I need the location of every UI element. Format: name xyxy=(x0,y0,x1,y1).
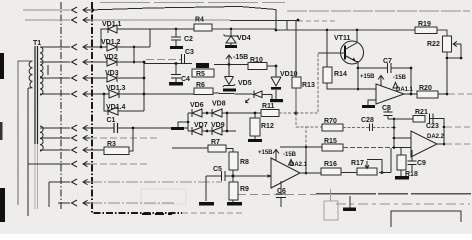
wire row y=164 gray continuation xyxy=(90,163,150,165)
svg-text:DA2.2: DA2.2 xyxy=(427,134,445,140)
transformer T1 core xyxy=(35,46,38,144)
svg-text:T1: T1 xyxy=(33,40,41,47)
node C7 right xyxy=(410,67,413,70)
wire DA1.1 inverting input xyxy=(358,88,376,90)
transformer T1 primary winding xyxy=(29,61,32,88)
ground bar under R9 xyxy=(227,202,242,206)
wire DA1.1 output row xyxy=(404,93,447,95)
scan streak top xyxy=(100,2,285,4)
connector contact pair row y=128 xyxy=(72,125,78,131)
bottom partial component box xyxy=(330,189,332,201)
node VD7 anode xyxy=(206,130,209,133)
transformer T1 polarity tick xyxy=(47,65,49,75)
left edge black bar 1 xyxy=(0,53,4,79)
wire R20 to edge xyxy=(449,93,472,95)
ground bar under C4 xyxy=(169,82,183,86)
wire R14 bottom to DA1.1 input xyxy=(327,83,358,89)
ground bar under VD10 xyxy=(270,99,283,102)
node row-y10 junction xyxy=(92,9,95,12)
op-amp DA2.2 xyxy=(411,131,437,157)
wire rectifier loop1 frame xyxy=(90,29,150,47)
wiper R17 xyxy=(367,160,382,173)
wire DA2.1 inverting input xyxy=(233,175,271,177)
connector contact pair row y=62 xyxy=(72,59,78,65)
node VD10 top xyxy=(275,65,278,68)
connector contact pair row y=47 xyxy=(72,44,78,50)
svg-text:C5: C5 xyxy=(213,166,222,173)
wire R17 row to riser xyxy=(379,148,391,173)
connector contact pair row y=164 xyxy=(72,161,78,167)
ground bar under R18 xyxy=(395,176,409,180)
svg-text:R13: R13 xyxy=(302,82,315,89)
wire secondary tap y=94 xyxy=(40,93,70,95)
wire C28 to DA2.2 column xyxy=(373,127,395,129)
op-amp DA1.1 xyxy=(376,84,404,104)
svg-text:C23: C23 xyxy=(426,123,439,130)
wire R15 row to DA2.2 column xyxy=(343,147,394,149)
wire row y=10 right of connector to corner x=276 xyxy=(90,7,276,11)
ground bar under C2 xyxy=(170,46,183,49)
wire primary row y=10 xyxy=(23,9,70,11)
diode (series with R6) xyxy=(254,91,262,99)
svg-text:+15B: +15B xyxy=(258,150,273,156)
wire DA2.2 upper input xyxy=(394,137,411,139)
wire row y=138 gray continuation xyxy=(90,137,158,139)
wire secondary tap y=78 xyxy=(40,77,70,79)
wire C1 row xyxy=(90,127,188,129)
node R21 row xyxy=(393,118,396,121)
wire bottom row y=182 stub xyxy=(49,182,70,207)
svg-text:+15B: +15B xyxy=(360,74,375,80)
wire row y=203 gray continuation xyxy=(90,202,176,204)
faint ghost box bottom left xyxy=(141,189,186,204)
boundary bottom gray continuation xyxy=(182,212,242,214)
connector contact pair row y=94 xyxy=(72,91,78,97)
node x=144 y=78 xyxy=(143,77,146,80)
svg-text:C4: C4 xyxy=(181,76,190,83)
wire secondary tap y=138 xyxy=(40,137,70,139)
svg-text:R22: R22 xyxy=(427,41,440,48)
ground bar DA1.1 xyxy=(362,105,375,108)
wire output row to R16 xyxy=(306,172,358,175)
node VD1.3 left xyxy=(103,93,106,96)
node C2 tap xyxy=(175,28,178,31)
transformer T1 secondary winding lower xyxy=(40,126,43,151)
scan line bottom faint left part xyxy=(238,194,316,196)
ground bar under VD5 xyxy=(223,89,236,92)
wire R22 bottom xyxy=(447,52,461,94)
enclosure boundary dash-dot vertical B with bottom corner xyxy=(92,2,182,213)
wire row y=182 gray continuation xyxy=(90,181,222,183)
ground bar under R12 xyxy=(248,139,262,142)
svg-text:C9: C9 xyxy=(417,160,426,167)
wire DA1.1 noninverting input to ground xyxy=(368,100,376,105)
wire VD7/VD9 row y=131 xyxy=(188,130,236,132)
connector contact pair row y=150 xyxy=(72,147,78,153)
wire main top row y=29/30 xyxy=(212,29,447,36)
svg-text:R4: R4 xyxy=(195,17,204,24)
bottom partial frame xyxy=(391,211,461,227)
wire top-left rail corner down xyxy=(275,10,277,31)
svg-text:VT11: VT11 xyxy=(334,35,350,42)
svg-text:VD5: VD5 xyxy=(238,80,252,87)
node emitter C7 tap xyxy=(357,67,360,70)
svg-text:R16: R16 xyxy=(324,161,337,168)
node R17 output xyxy=(381,171,384,174)
connector contact pair row y=78 xyxy=(72,75,78,81)
wire R21 row xyxy=(388,119,444,145)
node ladder ground tap xyxy=(187,121,190,124)
svg-text:C3: C3 xyxy=(185,49,194,56)
wire VT11 collector xyxy=(356,30,359,43)
wire DA2.2 output xyxy=(437,143,444,145)
scan line bottom middle xyxy=(316,193,472,195)
wire VD6/VD8 row y=113 xyxy=(188,112,261,114)
node VD2 row x=134 xyxy=(133,61,136,64)
wire secondary tap y=150 xyxy=(40,149,70,151)
svg-text:VD6: VD6 xyxy=(190,102,204,109)
wire DA2.1 output row xyxy=(300,172,321,174)
node R11/R13 junction xyxy=(295,112,298,115)
node C1 row R3 riser xyxy=(132,127,135,130)
wire output to edge xyxy=(446,143,472,145)
node -15V tap xyxy=(228,63,231,66)
svg-text:R9: R9 xyxy=(240,186,249,193)
wire secondary tap y=47 xyxy=(40,46,70,48)
node top corner x=276 xyxy=(275,29,278,32)
wire row y=20 to x=298 xyxy=(90,19,230,21)
wire R7 leads xyxy=(172,148,233,152)
wire row y=66 (VD2 rail) xyxy=(144,64,276,67)
svg-text:-15B: -15B xyxy=(283,152,297,158)
wire loop2 right leg x=144 xyxy=(118,62,144,111)
enclosure boundary dash-dot vertical A xyxy=(60,2,62,210)
ground bar C5 xyxy=(199,202,214,206)
svg-text:VD8: VD8 xyxy=(212,101,226,108)
wire base feedback x=318 xyxy=(296,53,318,113)
svg-text:C1: C1 xyxy=(107,117,116,124)
node R21/C23 out xyxy=(443,126,446,129)
wire row y=20 faint continuation xyxy=(298,20,335,22)
wire R4 row start from loop1 xyxy=(150,28,194,30)
wire VT11 base xyxy=(318,52,345,54)
svg-text:C8: C8 xyxy=(382,105,391,112)
wire DA2.2 input column x=394 xyxy=(393,119,395,148)
node C28 row xyxy=(393,126,396,129)
node R14 riser xyxy=(326,29,329,32)
svg-text:C2: C2 xyxy=(184,36,193,43)
wire secondary tap y=62 xyxy=(40,61,70,63)
wire primary row y=20 xyxy=(25,19,70,21)
node DA2.2 output xyxy=(443,143,446,146)
node output / C7 xyxy=(410,93,413,96)
svg-text:R11: R11 xyxy=(262,103,275,110)
svg-text:DA1.1: DA1.1 xyxy=(396,87,414,93)
wire bottom row y=203 stub xyxy=(58,202,70,204)
node R12 top xyxy=(254,112,257,115)
node VD9 row xyxy=(226,130,229,133)
node emitter DA1.1 input xyxy=(357,88,360,91)
connector contact pair row y=20 xyxy=(72,17,78,23)
wire C5 left leg to ground xyxy=(205,176,207,201)
svg-text:R21: R21 xyxy=(415,109,428,116)
node input 2 xyxy=(393,146,396,149)
svg-text:VD4: VD4 xyxy=(237,35,251,42)
node feedback R15 tap xyxy=(305,146,308,149)
wiper R22 xyxy=(454,44,461,58)
node R22 wiper xyxy=(460,57,463,60)
connector contact pair row y=182 xyxy=(72,179,78,185)
connector contact pair row y=138 xyxy=(72,135,78,141)
ground bar under VD4 xyxy=(225,45,237,48)
ground bar VD6/VD7 xyxy=(171,127,184,130)
wire VD3 row xyxy=(90,77,144,79)
wire R15 row xyxy=(280,146,322,148)
wire x=134 link VD1.2 to VD2 row xyxy=(133,47,135,62)
wire R6 row y=94.5 xyxy=(144,93,272,99)
wire secondary tap y=128 xyxy=(40,127,70,129)
wire riser x=287 xyxy=(286,21,288,30)
wire ladder left x=188 xyxy=(187,113,189,131)
svg-text:R14: R14 xyxy=(334,71,347,78)
wire secondary tap y=164 xyxy=(28,163,70,165)
wire C5 row xyxy=(206,175,233,177)
node x=144 y=62 xyxy=(143,61,146,64)
svg-text:-15B: -15B xyxy=(393,75,407,81)
connector contact pair row y=10 xyxy=(72,7,78,13)
wire feedback riser x=306 xyxy=(305,147,307,173)
node R22 bottom xyxy=(446,57,449,60)
wire primary top lead xyxy=(18,61,31,205)
node output feedback riser xyxy=(305,172,308,175)
wire R8 to node xyxy=(232,170,234,182)
wire R70 row to C28 xyxy=(343,127,370,129)
wire VT11 emitter down xyxy=(356,62,358,90)
transformer T1 secondary winding upper xyxy=(40,47,43,95)
node loop1 input xyxy=(100,46,103,49)
node row-y20 junction x=298 xyxy=(297,19,300,22)
wire R3 leads xyxy=(90,128,133,151)
node VD4 tap xyxy=(230,28,233,31)
scan dashes bottom left xyxy=(142,213,172,215)
node VD1.2 row x=134 xyxy=(133,46,136,49)
node C4 tap xyxy=(175,62,178,65)
node input 1 xyxy=(393,137,396,140)
wire DA2.2 lower input xyxy=(394,147,411,149)
svg-text:VD9: VD9 xyxy=(211,122,225,129)
wire R11 to feedback node xyxy=(279,112,296,114)
node VD8 row xyxy=(226,112,229,115)
resistor R5 xyxy=(196,63,209,68)
svg-text:R5: R5 xyxy=(196,71,205,78)
svg-text:R12: R12 xyxy=(261,123,274,130)
svg-text:R8: R8 xyxy=(240,159,249,166)
left edge black bar 2 xyxy=(0,122,3,140)
node x=144 y=94 xyxy=(143,93,146,96)
wire top rail y=11 right xyxy=(287,10,470,12)
wire loop2 left leg xyxy=(104,94,108,111)
wire tap to edge y=127 xyxy=(446,126,472,128)
svg-text:C28: C28 xyxy=(361,117,374,124)
wire ladder right x=227 xyxy=(226,113,228,131)
node VD6 anode xyxy=(206,112,209,115)
connector contact pair row y=203 xyxy=(72,200,78,206)
wire primary bottom lead xyxy=(28,88,31,216)
op-amp DA2.1 xyxy=(271,158,300,188)
bottom ground symbol xyxy=(349,196,351,208)
scan dash row y=204 right xyxy=(336,203,470,205)
svg-text:-15B: -15B xyxy=(233,54,248,61)
wire VD2 row to x=144 xyxy=(90,61,144,63)
wire ground tap xyxy=(178,122,188,127)
wire VD1.3 row xyxy=(90,93,144,95)
wire core faint continuation xyxy=(35,144,38,209)
wire C7 feedback riser xyxy=(410,68,412,94)
node VT11 collector xyxy=(356,29,359,32)
svg-text:R17: R17 xyxy=(351,160,364,167)
node R8/R9 divider xyxy=(232,175,235,178)
node R20 right xyxy=(446,93,449,96)
left edge black bar 3 xyxy=(0,188,5,222)
